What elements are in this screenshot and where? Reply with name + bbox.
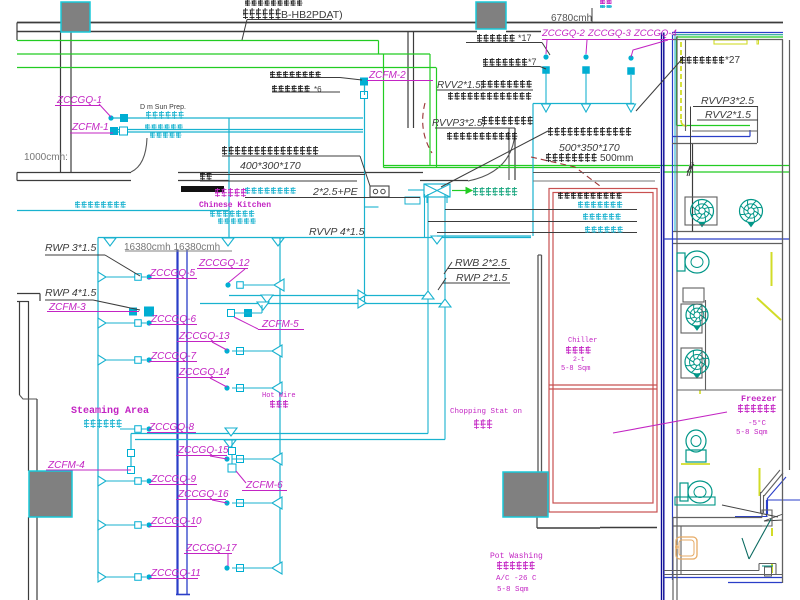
svg-text:ZCFM-4: ZCFM-4: [47, 460, 85, 471]
svg-text:1000cmh:: 1000cmh:: [24, 152, 68, 163]
svg-text:5-8 Sqm: 5-8 Sqm: [736, 429, 768, 437]
svg-text:ZCCGQ-7: ZCCGQ-7: [150, 351, 196, 362]
svg-text:RWB 2*2.5: RWB 2*2.5: [455, 257, 507, 269]
svg-text:Hot Wire: Hot Wire: [262, 392, 296, 400]
svg-text:RWP 4*1.5: RWP 4*1.5: [45, 287, 97, 299]
svg-text:ZCCGQ-2: ZCCGQ-2: [541, 28, 585, 39]
svg-text:ZCFM-6: ZCFM-6: [245, 480, 283, 491]
svg-text:ZCCGQ-14: ZCCGQ-14: [178, 367, 230, 378]
svg-text:ZCCGQ-17: ZCCGQ-17: [185, 543, 237, 554]
svg-text:ZCCGQ-3: ZCCGQ-3: [587, 28, 631, 39]
svg-text:ZCCGQ-6: ZCCGQ-6: [150, 314, 196, 325]
svg-text:ZCCGQ-1: ZCCGQ-1: [56, 95, 102, 106]
svg-text:ZCCGQ-16: ZCCGQ-16: [177, 489, 229, 500]
svg-text:Chopping Stat on: Chopping Stat on: [450, 408, 522, 416]
svg-text:5-8 Sqm: 5-8 Sqm: [497, 586, 529, 594]
svg-text:Freezer: Freezer: [741, 394, 777, 404]
svg-text:RVVP3*2.5: RVVP3*2.5: [701, 95, 754, 107]
svg-text:ZCFM-1: ZCFM-1: [71, 122, 109, 133]
svg-text:RWP 3*1.5: RWP 3*1.5: [45, 242, 97, 254]
svg-text:-5°C: -5°C: [748, 419, 767, 428]
svg-text:2-t: 2-t: [573, 356, 585, 363]
svg-text:ZCCGQ-15: ZCCGQ-15: [177, 445, 229, 456]
svg-text:Steaming Area: Steaming Area: [71, 405, 149, 417]
svg-text:ZCFM-2: ZCFM-2: [368, 70, 406, 81]
svg-text:ZCCGQ-4: ZCCGQ-4: [633, 28, 677, 39]
svg-text:6780cmh: 6780cmh: [551, 13, 592, 24]
svg-text:RVV2*1.5,: RVV2*1.5,: [437, 80, 484, 91]
svg-text:500mm: 500mm: [600, 153, 633, 164]
svg-text:ZCCGQ-10: ZCCGQ-10: [150, 516, 202, 527]
svg-text:ZCFM-5: ZCFM-5: [261, 319, 299, 330]
svg-text:5-8 Sqm: 5-8 Sqm: [561, 365, 590, 373]
svg-text:16380cmh 16380cmh: 16380cmh 16380cmh: [124, 242, 220, 253]
svg-text:2*2.5+PE: 2*2.5+PE: [312, 186, 359, 198]
svg-text:ZCCGQ-9: ZCCGQ-9: [150, 474, 196, 485]
svg-text:ZCCGQ-13: ZCCGQ-13: [178, 331, 230, 342]
svg-text:RVVP3*2.5,: RVVP3*2.5,: [432, 118, 485, 129]
svg-text:*6: *6: [314, 85, 322, 94]
svg-text:400*300*170: 400*300*170: [240, 160, 301, 172]
svg-text:ZCCGQ-8: ZCCGQ-8: [148, 422, 194, 433]
svg-text:*7: *7: [528, 57, 537, 67]
svg-text:RVV2*1.5: RVV2*1.5: [705, 109, 751, 121]
svg-text:ZCCGQ-11: ZCCGQ-11: [150, 568, 201, 579]
svg-text:A/C -26 C: A/C -26 C: [496, 575, 537, 583]
svg-text:Chinese Kitchen: Chinese Kitchen: [199, 201, 271, 210]
svg-text:RVVP 4*1.5: RVVP 4*1.5: [309, 226, 365, 238]
svg-text:D m Sun Prep.: D m Sun Prep.: [140, 104, 186, 111]
svg-text:*17: *17: [518, 33, 532, 43]
svg-text:Pot Washing: Pot Washing: [490, 552, 543, 561]
svg-text:B-HB2PDAT): B-HB2PDAT): [281, 9, 343, 21]
svg-text:ZCCGQ-12: ZCCGQ-12: [198, 258, 250, 269]
svg-text:ZCCGQ-5: ZCCGQ-5: [149, 268, 195, 279]
svg-text:Chiller: Chiller: [568, 337, 597, 345]
svg-text:*27: *27: [725, 55, 740, 66]
svg-text:RWP 2*1.5: RWP 2*1.5: [456, 272, 508, 284]
